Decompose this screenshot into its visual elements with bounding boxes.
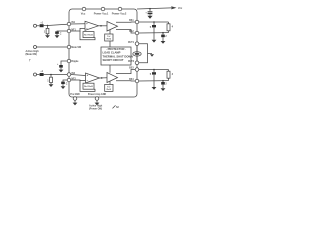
svg-text:2: 2 (165, 83, 167, 85)
svg-text:BS3: BS3 (129, 68, 134, 70)
svg-text:BS2: BS2 (129, 31, 134, 33)
resistor R3 (168, 22, 170, 24)
ground (speaker loop) (148, 52, 153, 54)
node supply junction (149, 8, 151, 10)
wire BS3 line (139, 69, 169, 71)
wire mute (37, 46, 68, 48)
svg-text:1: 1 (44, 31, 46, 34)
op-amp A4 power stage (107, 73, 118, 83)
svg-text:5: 5 (150, 73, 152, 76)
wire IN2 to A3 (71, 75, 86, 76)
wire ripple to C5 (61, 61, 67, 65)
feedback box Rnf1 (83, 32, 94, 38)
IC U1 outline (69, 9, 137, 97)
wire NF2 to A3 (71, 79, 86, 82)
ground (C2) (55, 35, 60, 38)
capacitor C5 ripple filter (59, 65, 63, 68)
ground (C5) (59, 70, 64, 73)
node C8 top (153, 21, 155, 23)
ground (C4) (61, 86, 66, 89)
svg-text:(Power ON): (Power ON) (89, 108, 102, 111)
wire IN1 to A1 (71, 23, 85, 25)
input terminal IN2 (34, 73, 37, 76)
pin BS3 (right) (135, 68, 139, 72)
resistor R4 (168, 70, 170, 72)
svg-text:S2: S2 (116, 107, 120, 109)
pin OUT1 (right) (135, 42, 139, 46)
svg-text:+1: +1 (40, 71, 43, 73)
svg-text:+1: +1 (40, 22, 43, 24)
svg-text:Rnf Rnf2: Rnf Rnf2 (84, 35, 94, 37)
wire C3 to pin IN2 (44, 74, 68, 76)
input terminal IN1 (34, 24, 37, 27)
capacitor C9 (162, 32, 164, 34)
wire BS2 line (139, 32, 169, 34)
svg-text:4: 4 (172, 26, 174, 29)
op-amp A3 (86, 73, 100, 83)
ground (Pre GND) (73, 103, 78, 106)
pin IN2 (left) (67, 73, 71, 77)
svg-text:Vcc: Vcc (81, 12, 86, 16)
svg-text:Ripple: Ripple (71, 61, 79, 63)
svg-text:2: 2 (165, 36, 167, 38)
svg-text:C: C (66, 84, 68, 86)
wire Vcc rail to supply (137, 8, 171, 9)
box Tnf1 (105, 34, 113, 41)
wire C1 to pin IN1 (44, 24, 68, 25)
svg-text:Rnf2: Rnf2 (107, 39, 112, 41)
wire A3 output (100, 77, 108, 79)
wire A4 to pin BS3 (116, 70, 135, 74)
wire IN1 (37, 25, 40, 27)
wire A2 to pin BS2 (116, 30, 135, 34)
svg-text:+: + (57, 64, 59, 66)
node A1 out (100, 25, 102, 27)
svg-text:THERMAL SHUT DOWN: THERMAL SHUT DOWN (103, 54, 133, 58)
ground (R1) (45, 35, 50, 38)
pin Vcc (top) (82, 7, 86, 11)
pin Power Vcc1 (top) (101, 7, 105, 11)
speaker SP1 (136, 46, 138, 52)
svg-text:C: C (60, 33, 62, 35)
wire NF1 to C2 (57, 30, 67, 32)
wire A2 to Tnf1 (109, 30, 111, 34)
wire protector to A4 (109, 65, 111, 73)
protector box (101, 47, 131, 65)
pin OUT2 (right) (135, 61, 139, 65)
node input junction 1 (47, 25, 49, 27)
capacitor C11 (162, 80, 164, 82)
node input junction 2 (50, 74, 52, 76)
op-amp A1 input marks (86, 23, 87, 29)
svg-text:⌈˜: ⌈˜ (29, 58, 31, 62)
wire NF1 to Rnf1 (80, 31, 95, 40)
Vcc arrow terminal (171, 6, 176, 9)
capacitor C1 input coupling (40, 24, 44, 27)
wire speaker bypass loop (139, 44, 148, 63)
svg-text:Power Vcc2: Power Vcc2 (112, 12, 127, 16)
pin BS2 (right) (135, 31, 139, 35)
capacitor C10 (153, 70, 155, 73)
resistor R2 input bias (50, 77, 53, 82)
ground (supply cap) (147, 16, 152, 19)
op-amp A1 (85, 21, 99, 30)
svg-text:OUT1: OUT1 (128, 42, 135, 44)
svg-text:OUT2: OUT2 (128, 61, 135, 63)
signal ground mark (113, 105, 116, 108)
wire BS4 line (139, 80, 169, 82)
ground (C9) (161, 41, 166, 44)
svg-text:1: 1 (47, 79, 49, 82)
pin BS4 (right) (135, 79, 139, 83)
svg-text:- PROTECTOR -: - PROTECTOR - (106, 47, 126, 51)
pin NF2 (left) (67, 78, 71, 82)
resistor R1 input bias (46, 28, 49, 33)
capacitor C3 input coupling (40, 73, 44, 76)
ground (C8) (152, 40, 157, 43)
box Tnf2 (105, 84, 113, 91)
svg-text:LOAD CLAMP: LOAD CLAMP (103, 51, 121, 55)
svg-text:BS4: BS4 (129, 78, 134, 81)
wire Tnf1 to protector (109, 41, 111, 47)
pin BS1 (right) (135, 20, 139, 24)
wire A1 output (99, 25, 108, 27)
svg-text:Power Vcc1: Power Vcc1 (94, 12, 109, 16)
ground (C10) (152, 87, 157, 90)
svg-text:Pre GND: Pre GND (70, 94, 80, 96)
node C10 top (153, 69, 155, 71)
svg-text:Mute SW: Mute SW (71, 46, 82, 49)
pin Power Vcc2 (top) (118, 7, 122, 11)
pin Power GND (bottom) (95, 97, 99, 101)
svg-text:+: + (145, 11, 147, 14)
wire BS1 line (139, 21, 169, 23)
ground (C11) (161, 88, 166, 91)
op-amp A2 power stage (107, 22, 118, 32)
ground (R2) (49, 84, 54, 87)
svg-text:SHORT CIRCUIT: SHORT CIRCUIT (103, 58, 124, 62)
mute terminal (34, 46, 37, 49)
pin NF1 (left) (67, 29, 71, 33)
pin IN1 (left) (67, 22, 71, 26)
wire A4 to Tnf2 (109, 81, 111, 84)
svg-text:Rnf Rnf2: Rnf Rnf2 (84, 86, 94, 88)
svg-text:5: 5 (150, 26, 152, 29)
svg-text:Rnf2: Rnf2 (107, 89, 112, 91)
feedback box Rnf2 (83, 83, 94, 89)
svg-text:BS1: BS1 (129, 20, 134, 22)
wire NF2 to C4 (63, 80, 67, 82)
capacitor C2 NF (55, 31, 59, 34)
capacitor C4 NF (61, 82, 65, 85)
capacitor C7 supply filter (149, 9, 151, 12)
wire NF2 to Rnf2 (80, 80, 95, 91)
wire A4 to pin BS4 (116, 80, 135, 82)
ground (Power GND) (95, 103, 100, 106)
wire A2 to pin BS1 (116, 21, 135, 23)
wire junction to R1 (47, 26, 49, 29)
svg-text:(Mute ON): (Mute ON) (26, 53, 38, 56)
op-amp A3 input marks (87, 75, 88, 81)
capacitor C8 (153, 22, 155, 25)
wire NF1 to A1 (71, 28, 85, 31)
svg-text:Vcc: Vcc (178, 7, 183, 10)
svg-text:Power Amp GND: Power Amp GND (88, 93, 107, 96)
pin ripple (left) (67, 59, 71, 63)
pin mute (left) (67, 45, 71, 49)
pin Pre GND (bottom) (73, 97, 77, 101)
svg-text:4: 4 (172, 73, 174, 76)
